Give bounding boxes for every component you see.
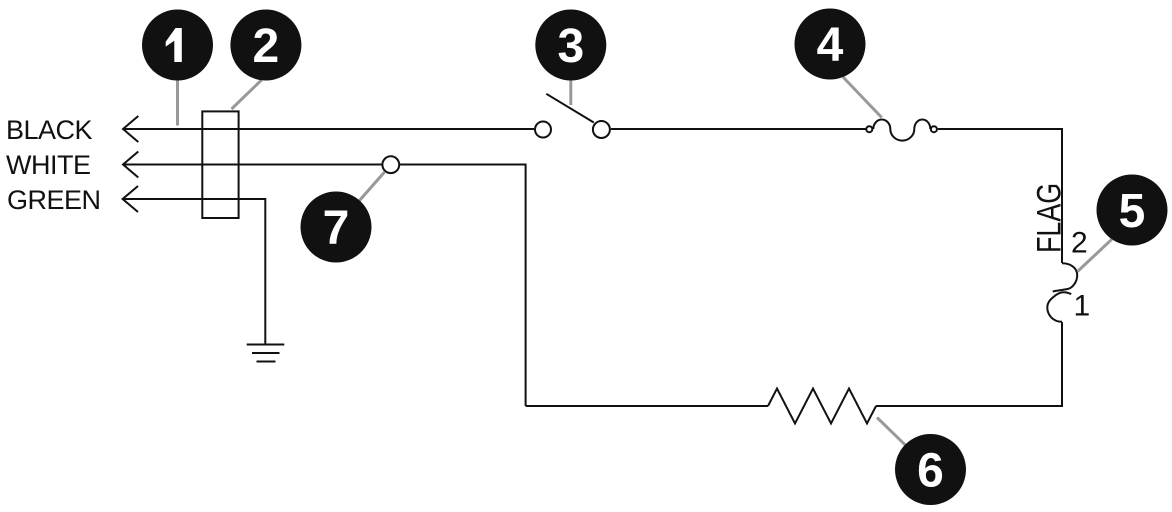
- callout 3 leader: [569, 45, 572, 105]
- svg-text:WHITE: WHITE: [6, 150, 91, 180]
- wire GREEN lead: [123, 199, 266, 344]
- callout 1: [142, 10, 213, 81]
- strain relief bushing: [202, 111, 238, 218]
- callout 6: [895, 434, 966, 505]
- thermal protector: [866, 120, 937, 141]
- svg-text:6: 6: [917, 445, 944, 498]
- wire WHITE junction to corner: [399, 165, 525, 407]
- junction terminal on WHITE wire: [382, 156, 399, 173]
- svg-text:FLAG: FLAG: [1031, 183, 1069, 253]
- callout 7 leader: [336, 172, 385, 227]
- callout 3: [535, 10, 606, 81]
- svg-text:4: 4: [817, 19, 844, 72]
- callout 6 leader: [877, 418, 931, 470]
- flag terminal pin 1 (lower hook): [1047, 292, 1071, 322]
- svg-text:1: 1: [1074, 290, 1091, 323]
- wire thermal protector to right corner: [938, 129, 1062, 263]
- arrowhead WHITE lead: [123, 152, 138, 178]
- wire BLACK lead to switch: [123, 128, 534, 130]
- wire bottom left: [526, 405, 768, 407]
- callout 4: [795, 9, 866, 80]
- svg-text:3: 3: [557, 20, 584, 73]
- svg-text:5: 5: [1119, 185, 1146, 238]
- callout 7: [301, 192, 372, 263]
- svg-text:2: 2: [1071, 227, 1088, 260]
- svg-text:2: 2: [253, 20, 280, 73]
- callout 5 leader: [1078, 239, 1112, 271]
- ground: [247, 345, 285, 362]
- switch S1: [535, 94, 610, 138]
- flag terminal pin 2 (upper hook): [1053, 263, 1078, 291]
- callout 2 leader: [232, 80, 262, 109]
- arrowhead BLACK lead: [123, 116, 138, 142]
- callout 5: [1097, 175, 1168, 246]
- arrowhead GREEN lead: [123, 186, 138, 212]
- resistor heating element: [768, 389, 876, 424]
- callout 1 leader: [176, 45, 179, 126]
- callout 2: [230, 10, 301, 81]
- wire flag terminal down to bottom: [876, 322, 1062, 406]
- callout 4 leader: [843, 77, 882, 118]
- svg-text:7: 7: [323, 202, 350, 255]
- wire switch to thermal protector: [611, 128, 866, 130]
- svg-text:GREEN: GREEN: [7, 185, 101, 215]
- wire WHITE lead to junction: [123, 164, 382, 166]
- svg-text:BLACK: BLACK: [6, 115, 93, 145]
